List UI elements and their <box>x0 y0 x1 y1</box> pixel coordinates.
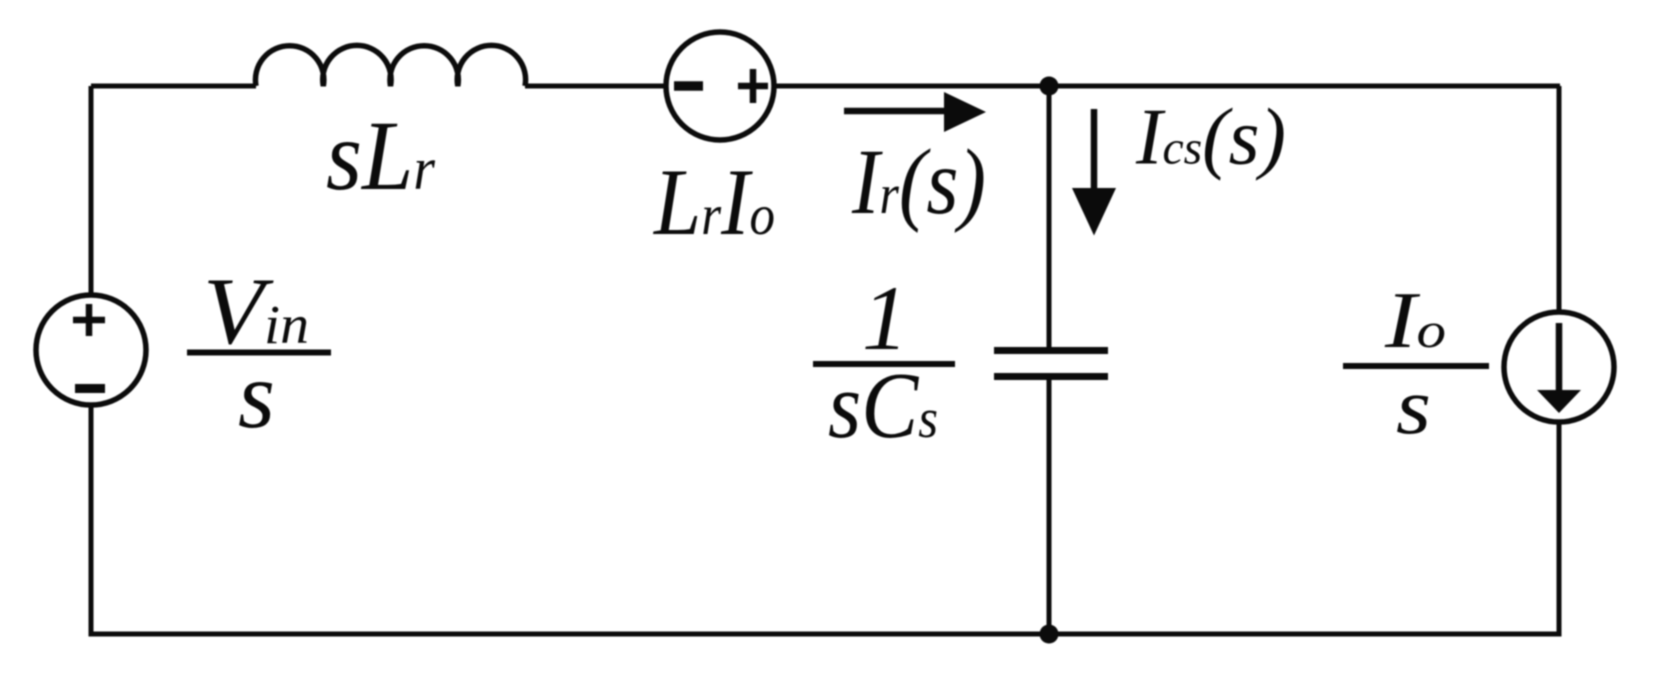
svg-text:Ics(s): Ics(s) <box>1135 94 1286 182</box>
svg-text:s: s <box>1396 363 1431 451</box>
svg-text:s: s <box>238 342 275 448</box>
svg-text:Ir(s): Ir(s) <box>851 131 986 234</box>
